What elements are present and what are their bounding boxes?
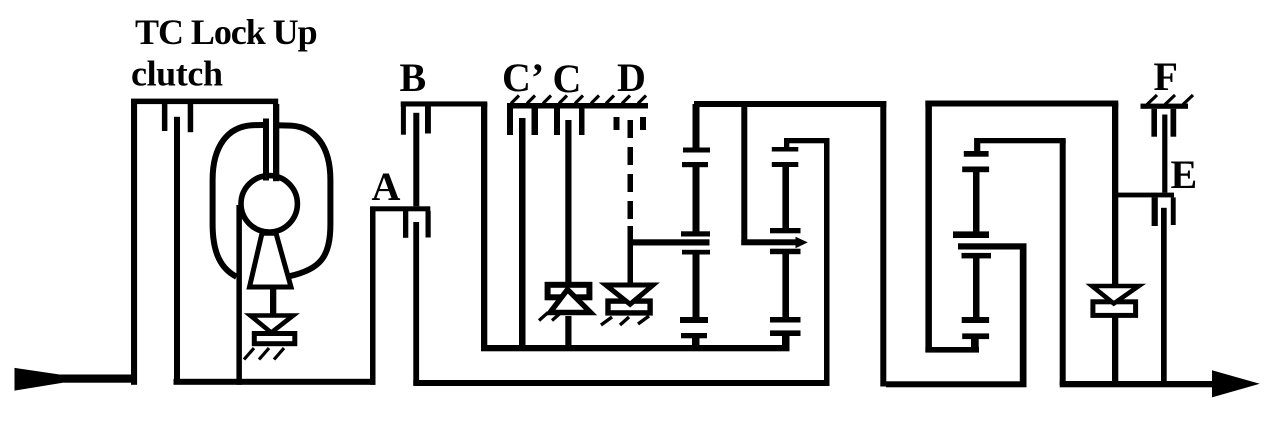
output arrow (right) xyxy=(1212,370,1260,397)
wire: middle lower line (y=345) xyxy=(481,345,790,351)
wire: TC input shaft (slot right wall) xyxy=(273,104,279,181)
brake D ticks (dashed) xyxy=(614,117,647,130)
TC stator triangle xyxy=(250,233,292,287)
wire: output line under A (long bottom line) xyxy=(413,380,829,386)
wire: lock-up clutch output shaft xyxy=(174,117,180,382)
gearset2 lower element stem xyxy=(782,252,789,319)
torque converter shell right half xyxy=(276,125,331,276)
svg-text:TC Lock Up: TC Lock Up xyxy=(135,12,317,52)
gearset3 bottom plate pair xyxy=(962,317,989,339)
svg-text:A: A xyxy=(372,164,401,209)
wire: planetary right vertical xyxy=(880,101,886,387)
svg-text:E: E xyxy=(1171,152,1198,197)
one-way clutch (stator) box xyxy=(254,334,294,344)
wire: output line segment under gearset3 xyxy=(886,381,1027,387)
hatching at C one-way clutch xyxy=(539,313,561,321)
wire: TC slot left wall xyxy=(263,119,269,181)
gearset3 ring Z-arm xyxy=(974,138,1066,151)
brake C' ticks xyxy=(507,109,538,136)
power flow arrow line in gearset 2 xyxy=(741,237,808,248)
wire: A output shaft xyxy=(413,222,419,385)
gearset2 top plate pair xyxy=(772,147,799,167)
case hatching above C'/C/D bar xyxy=(511,96,646,104)
wire: output line right segment xyxy=(1060,381,1215,387)
wire: gearset2 right vertical xyxy=(824,141,830,385)
wire: right elbow line xyxy=(925,347,979,353)
svg-text:clutch: clutch xyxy=(131,54,223,94)
ground hatching under D one-way clutch xyxy=(601,316,649,325)
one-way clutch (stator) triangle xyxy=(250,316,293,333)
svg-text:C: C xyxy=(553,56,582,101)
wire: C shaft upper xyxy=(565,120,571,282)
brake F bar (case) xyxy=(1141,104,1189,109)
ground hatching under stator one-way clutch xyxy=(244,348,284,359)
wire: D carrier line into gearset 1 xyxy=(628,239,710,245)
one-way clutch (C) box xyxy=(548,285,590,298)
gearset1 mid plates xyxy=(681,231,710,254)
clutch B bar xyxy=(401,101,488,106)
gearset3 upper element stem xyxy=(973,170,980,234)
wire: left housing vertical xyxy=(131,99,137,385)
one-way clutch (E line) triangle xyxy=(1092,286,1139,304)
wire: planetary top line xyxy=(694,101,886,107)
wire: E output shaft xyxy=(1161,208,1167,384)
gearset2 ring Z-arm xyxy=(784,138,830,149)
gearset3 bottom hook stem xyxy=(971,337,979,352)
wire: right top line xyxy=(925,101,1118,107)
wire: C shaft lower xyxy=(565,316,571,348)
wire: B output shaft xyxy=(413,113,419,207)
one-way clutch (D) triangle xyxy=(606,285,653,304)
TC lock-up clutch ticks xyxy=(162,104,193,132)
wire: turbine output shaft xyxy=(236,205,242,385)
gearset2 upper element stem xyxy=(782,165,789,230)
gearset1 bottom stem xyxy=(692,336,700,348)
gearset3 lower element stem xyxy=(973,256,980,320)
gearset2 bottom hook stem xyxy=(782,334,790,349)
gearset2 bottom plate pair xyxy=(770,317,801,336)
clutch A ticks xyxy=(403,211,431,238)
clutch E bar xyxy=(1113,193,1174,198)
svg-text:F: F xyxy=(1154,54,1178,99)
wire: E drum vertical below one-way clutch xyxy=(1112,316,1118,386)
gearset2 mid plates xyxy=(770,228,801,254)
gearset3 lower plates xyxy=(962,253,992,259)
case hatching above F bar xyxy=(1147,95,1193,105)
brake F ticks xyxy=(1151,109,1176,137)
wire: B right drop vertical xyxy=(481,103,487,351)
brake C ticks xyxy=(554,109,585,136)
wire: stator stem xyxy=(270,289,276,314)
gearset3 top plate pair xyxy=(962,151,989,172)
one-way clutch (D) box xyxy=(608,301,650,313)
wire: C' shaft xyxy=(519,118,526,348)
wire: TC top bar xyxy=(131,99,278,105)
svg-text:C’: C’ xyxy=(502,55,544,100)
wire: gearset3 carrier drop vertical xyxy=(1020,246,1027,387)
wire: A left vertical xyxy=(370,209,376,385)
wire: D shaft (dashed) xyxy=(628,120,634,283)
clutch A bar xyxy=(370,206,430,211)
gearset1 upper element stem xyxy=(693,165,700,232)
wire: gearset3 right vertical xyxy=(1060,141,1066,385)
wire: top right vertical (E drum) xyxy=(1112,103,1118,284)
one-way clutch (C) triangle xyxy=(550,290,591,313)
gearset1 lower element stem xyxy=(693,252,700,318)
wire: F shaft xyxy=(1162,115,1167,193)
gearset3 mid plates xyxy=(953,231,1027,249)
gearset1 bottom plate pair xyxy=(680,317,708,338)
gearset1 sun plate pair xyxy=(682,148,710,168)
clutch B ticks xyxy=(401,106,431,135)
input arrow (left) xyxy=(15,368,138,391)
svg-text:B: B xyxy=(400,55,427,100)
svg-text:D: D xyxy=(617,55,646,100)
torque converter shell left half xyxy=(213,125,265,277)
clutch E ticks xyxy=(1152,197,1176,226)
wire: gearset1 top stem xyxy=(693,104,700,148)
one-way clutch (E line) box xyxy=(1093,302,1136,316)
wire: TC bottom line to A xyxy=(174,379,376,385)
TC turbine circle xyxy=(241,176,297,232)
label TC Lock Up clutch xyxy=(131,12,317,94)
wire: mid vertical to arrow line xyxy=(741,104,747,245)
brake bar C'/C/D (case) xyxy=(507,103,648,109)
wire: right section left vertical xyxy=(925,101,932,353)
